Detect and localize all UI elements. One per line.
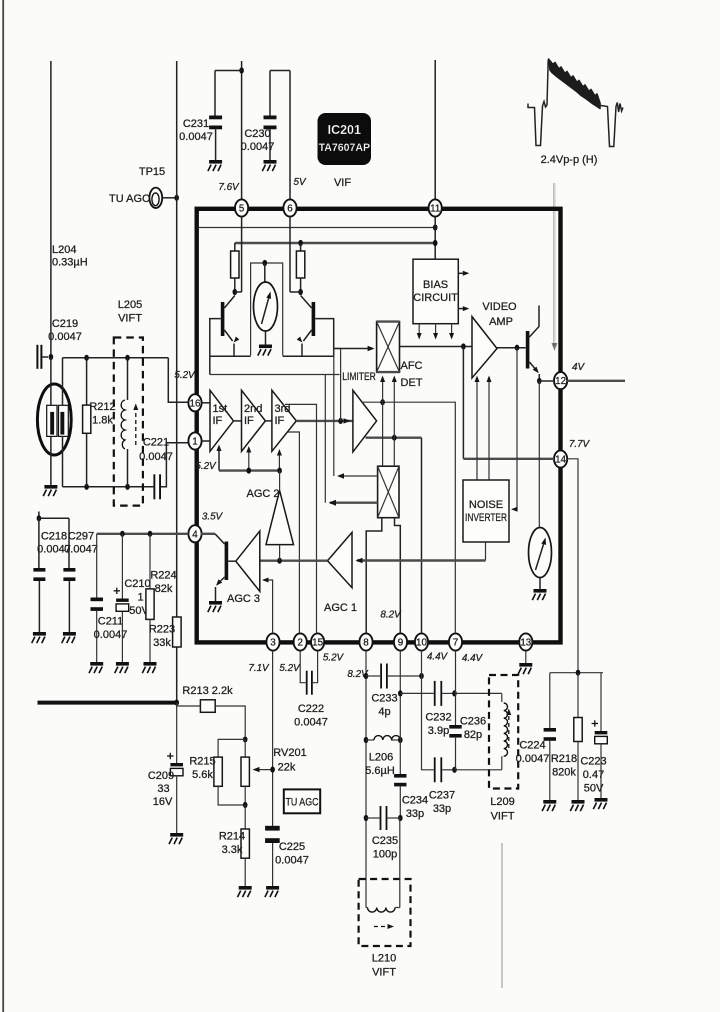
transformer L205 VIFT — [114, 338, 143, 506]
svg-text:C297: C297 — [68, 531, 94, 543]
wire 2nd-3rd IF — [265, 420, 272, 422]
svg-text:IF: IF — [275, 415, 285, 427]
pin 2 (IF bypass) — [294, 633, 307, 650]
svg-text:0.0047: 0.0047 — [139, 451, 173, 463]
svg-text:15: 15 — [312, 638, 323, 649]
node C219/L204 junction — [49, 354, 54, 360]
capacitor C209 33uF 16V electrolytic — [167, 703, 183, 833]
pin 9 (det tank) — [394, 633, 407, 650]
svg-text:C209: C209 — [148, 770, 174, 782]
svg-text:33p: 33p — [406, 808, 424, 820]
wire pin10 column — [422, 651, 434, 770]
svg-text:0.0047: 0.0047 — [516, 753, 550, 765]
wire pin9 column — [399, 651, 401, 774]
wire emitter to pin 12 — [539, 380, 554, 382]
wire noise inverter input — [513, 348, 518, 510]
capacitor C235 100p — [366, 806, 400, 830]
svg-text:5.6k: 5.6k — [192, 769, 213, 781]
svg-text:IF: IF — [244, 415, 254, 427]
svg-text:C233: C233 — [371, 693, 397, 705]
wire AFC det inputs from limiter — [380, 376, 397, 438]
svg-text:16V: 16V — [153, 796, 173, 808]
svg-text:82p: 82p — [464, 729, 482, 741]
svg-text:8.2V: 8.2V — [380, 610, 402, 621]
svg-text:AMP: AMP — [489, 316, 513, 328]
svg-text:820k: 820k — [552, 767, 576, 779]
wire AGC bus thick — [38, 701, 177, 703]
op-amp video amp — [472, 317, 497, 378]
wire tank to pin 16 — [168, 358, 188, 403]
svg-text:3.9p: 3.9p — [428, 725, 449, 737]
pin 3 (AGC adj) — [266, 633, 279, 650]
op-amp 2nd IF — [242, 390, 266, 451]
svg-text:0.0047: 0.0047 — [294, 717, 328, 729]
svg-text:DET: DET — [401, 377, 423, 389]
wire internal rail upper — [199, 227, 435, 229]
pin 8 (det tank) — [359, 633, 372, 650]
svg-text:1st: 1st — [213, 403, 228, 415]
svg-text:INVERTER: INVERTER — [465, 512, 507, 524]
svg-text:VIDEO: VIDEO — [482, 301, 517, 313]
wire AGC filter node — [39, 517, 69, 519]
capacitor C236 82p — [449, 725, 461, 738]
waveform video 2.4Vp-p (H) — [528, 59, 623, 147]
wire pin13 to ground — [525, 651, 527, 663]
svg-text:3.5V: 3.5V — [202, 512, 224, 523]
ground — [238, 886, 252, 897]
resistor R214 3.3k — [241, 805, 249, 886]
wire AGC2 base stub — [279, 545, 281, 561]
capacitor C219 — [36, 345, 48, 369]
resistor R224 82k — [146, 534, 154, 662]
wire video det lower output arrow — [330, 502, 378, 504]
svg-text:7: 7 — [453, 638, 458, 649]
wire pin5 top node — [241, 61, 243, 199]
svg-text:22k: 22k — [278, 762, 296, 774]
wire 4V output line — [567, 380, 625, 382]
capacitor C230 — [264, 71, 291, 161]
op-amp limiter — [353, 390, 377, 452]
resistor R218 820k — [574, 673, 582, 800]
ground — [258, 345, 272, 356]
wire 3rd IF output to limiter — [296, 420, 353, 422]
capacitor C218 0.0047 — [33, 518, 45, 632]
pin 13 (GND) — [519, 633, 532, 650]
block NOISE INVERTER — [463, 480, 509, 542]
wire limiter lower output — [366, 437, 422, 439]
svg-text:4V: 4V — [572, 362, 585, 373]
wire video det to pin 8 — [366, 518, 382, 634]
svg-text:R214: R214 — [219, 831, 245, 843]
svg-text:1: 1 — [137, 592, 143, 604]
wire 3rd IF tap to pin 2 — [288, 432, 300, 633]
ground — [115, 662, 129, 673]
wire video det upper output arrow — [340, 475, 378, 477]
svg-text:33k: 33k — [153, 637, 171, 649]
svg-text:4p: 4p — [378, 706, 390, 718]
wire video det to pin 9 — [395, 518, 401, 634]
IC201 TA7607AP label box — [318, 113, 372, 165]
ground — [62, 632, 76, 643]
svg-text:IC201: IC201 — [328, 123, 361, 137]
ground — [570, 800, 584, 811]
svg-text:100p: 100p — [373, 849, 397, 861]
capacitor C224 0.0047 — [544, 673, 556, 800]
svg-text:R224: R224 — [150, 570, 176, 582]
svg-text:5.2V: 5.2V — [195, 461, 217, 472]
capacitor C221 0.0047 — [153, 443, 188, 500]
pin 5 (7.6V) — [235, 199, 248, 216]
svg-text:0.33µH: 0.33µH — [52, 257, 88, 269]
wire video amp output to transistor — [497, 347, 526, 349]
wire AGC3 input from pin 3 — [264, 580, 273, 633]
svg-text:11: 11 — [430, 204, 440, 215]
wire pin6 top — [289, 71, 291, 200]
ground — [208, 601, 222, 612]
svg-text:C219: C219 — [52, 318, 78, 330]
svg-text:TU AGC: TU AGC — [286, 797, 319, 809]
pin 6 (5V) — [283, 199, 296, 216]
svg-text:9: 9 — [398, 638, 403, 649]
svg-text:33p: 33p — [433, 803, 451, 815]
svg-text:7.7V: 7.7V — [569, 439, 591, 450]
capacitor C222 0.0047 — [300, 651, 317, 695]
wire pin4 AGC filter line — [97, 533, 189, 535]
capacitor C234 33p — [394, 774, 406, 818]
wire limiter to AFC det — [334, 349, 341, 421]
svg-text:CIRCUIT: CIRCUIT — [413, 292, 458, 304]
svg-text:2nd: 2nd — [244, 403, 262, 415]
svg-text:RV201: RV201 — [273, 747, 306, 759]
svg-text:0.0047: 0.0047 — [241, 141, 275, 153]
meter internal tuning-meter — [251, 260, 283, 356]
ground — [208, 160, 222, 171]
svg-text:0.0047: 0.0047 — [48, 331, 82, 343]
svg-text:AFC: AFC — [401, 360, 423, 372]
transformer L209 VIFT — [489, 675, 518, 789]
svg-text:5.6µH: 5.6µH — [365, 765, 395, 777]
ground — [142, 662, 156, 673]
wire pin7 column — [455, 651, 457, 725]
svg-text:C232: C232 — [425, 712, 451, 724]
svg-text:L205: L205 — [118, 299, 142, 311]
wire pin16 to 1st IF — [202, 402, 210, 404]
construction line below L209 — [501, 843, 503, 988]
svg-text:5: 5 — [239, 204, 245, 215]
svg-text:10: 10 — [416, 638, 427, 649]
wire TP15 to AGC rail — [162, 197, 176, 199]
svg-text:C235: C235 — [372, 835, 398, 847]
wire tank top line — [63, 357, 169, 359]
wire pin11 top vertical — [434, 60, 436, 199]
svg-text:2: 2 — [297, 638, 302, 649]
mixer AFC DET — [377, 322, 400, 373]
svg-text:14: 14 — [555, 455, 566, 466]
wire pin6 to diff pair — [289, 217, 291, 292]
wire AGC1 output line — [260, 560, 328, 562]
svg-text:AGC 2: AGC 2 — [246, 488, 279, 500]
resistor R215 5.6k — [214, 739, 245, 805]
capacitor C233 4p — [366, 664, 422, 689]
potentiometer RV201 22k — [241, 739, 273, 805]
pin 1 (IF in) — [188, 432, 201, 449]
wire video det reference vertical — [324, 375, 326, 503]
svg-text:L206: L206 — [369, 752, 393, 764]
wire SAW left lead to ground — [50, 357, 52, 405]
svg-text:C211: C211 — [98, 616, 123, 628]
svg-text:3.3k: 3.3k — [222, 844, 243, 856]
resistor internal left load — [234, 243, 236, 251]
svg-text:4.4V: 4.4V — [427, 652, 449, 663]
svg-text:TA7607AP: TA7607AP — [319, 142, 370, 154]
pin 7 (AFC tank) — [449, 633, 462, 650]
op-amp AGC3 — [236, 531, 260, 591]
wire 7.7V node horizontal — [550, 672, 603, 674]
inductor L206 5.6uH — [366, 736, 400, 740]
pin 4 (AGC filter) — [188, 525, 201, 542]
wire bias outputs down — [418, 324, 420, 336]
svg-text:50V: 50V — [584, 783, 604, 795]
svg-text:5.2V: 5.2V — [279, 663, 301, 674]
wire AFC det output — [400, 346, 473, 348]
svg-text:33: 33 — [157, 783, 169, 795]
pin 11 (Vcc) — [429, 199, 442, 216]
svg-text:C234: C234 — [402, 795, 428, 807]
wire tank bottom line — [63, 486, 154, 488]
svg-text:L204: L204 — [52, 244, 76, 256]
svg-text:0.0047: 0.0047 — [64, 544, 98, 556]
transistor video output emitter-follower — [526, 306, 540, 382]
pointer arrow from waveform to pin 12 — [553, 183, 555, 346]
pin 10 (AFC tank) — [415, 633, 428, 650]
pin 14 (video out 7.7V) — [554, 450, 567, 467]
wire AGC feedback 5.2V line — [217, 445, 282, 474]
svg-text:VIF: VIF — [334, 177, 351, 189]
ground — [169, 833, 183, 844]
ground — [89, 662, 103, 673]
svg-text:C218: C218 — [41, 531, 67, 543]
op-amp 1st IF — [210, 390, 234, 451]
SAW filter input — [37, 384, 71, 455]
ground — [262, 160, 276, 171]
ground — [265, 886, 279, 897]
op-amp AGC2 — [266, 490, 294, 544]
capacitor C223 0.47 50V electrolytic — [592, 673, 608, 798]
pin 16 (IF in) — [188, 394, 201, 411]
wire pin11 to bias circuit — [434, 217, 436, 260]
ground — [43, 485, 57, 496]
wire TU AGC vertical rail — [176, 61, 178, 617]
svg-text:0.0047: 0.0047 — [275, 855, 309, 867]
svg-text:L210: L210 — [372, 953, 396, 965]
svg-text:C231: C231 — [183, 118, 209, 130]
wire 3rd IF tap to pin 15 — [285, 404, 317, 633]
capacitor C211 0.0047 — [91, 534, 104, 662]
svg-text:LIMITER: LIMITER — [342, 371, 376, 383]
svg-text:C224: C224 — [519, 740, 545, 752]
svg-text:C237: C237 — [429, 790, 455, 802]
ground — [518, 663, 532, 674]
svg-text:7.6V: 7.6V — [218, 182, 240, 193]
capacitor C237 33p — [434, 757, 455, 782]
wire AGC3 apex to transistor — [228, 560, 236, 562]
svg-text:4.4V: 4.4V — [462, 653, 484, 664]
wire AFC tank to L209 — [455, 692, 502, 694]
svg-text:8: 8 — [363, 638, 369, 649]
wire pin5 to diff pair — [241, 217, 243, 292]
wire pin1 to 1st IF — [202, 440, 210, 442]
svg-text:7.1V: 7.1V — [248, 663, 270, 674]
IC201 block outline — [197, 209, 561, 643]
svg-text:R212: R212 — [89, 401, 115, 413]
ground — [593, 798, 607, 809]
svg-text:4: 4 — [192, 529, 198, 540]
svg-text:TP15: TP15 — [139, 166, 165, 178]
wire 1st-2nd IF — [234, 420, 242, 422]
resistor R213 2.2k — [177, 700, 246, 736]
svg-text:R223: R223 — [149, 624, 175, 636]
block BIAS CIRCUIT — [413, 259, 458, 324]
ground — [542, 800, 556, 811]
svg-text:3: 3 — [270, 638, 276, 649]
svg-text:C230: C230 — [244, 128, 270, 140]
meter internal output meter — [529, 381, 552, 589]
wire limiter upper output — [362, 402, 455, 633]
wire video amp feedback inputs — [475, 376, 492, 481]
ground — [532, 589, 546, 600]
svg-text:AGC 1: AGC 1 — [324, 602, 357, 614]
page edge line — [2, 0, 4, 1012]
wire video det carrier inputs — [382, 402, 384, 466]
testpoint TP15 TU AGC — [149, 188, 162, 208]
capacitor C232 3.9p — [400, 681, 454, 706]
wire SAW right lead — [62, 358, 64, 406]
svg-text:1.8k: 1.8k — [92, 415, 113, 427]
wire video amp node to pin 14 — [462, 347, 464, 459]
svg-text:C225: C225 — [279, 841, 305, 853]
svg-text:TU AGC: TU AGC — [109, 193, 150, 205]
svg-text:R218: R218 — [551, 753, 577, 765]
transistor internal Q-left — [210, 296, 251, 375]
ground — [32, 632, 46, 643]
svg-text:BIAS: BIAS — [423, 279, 448, 291]
svg-text:5.2V: 5.2V — [174, 370, 196, 381]
svg-text:13: 13 — [520, 638, 531, 649]
label TU AGC box — [284, 789, 320, 813]
svg-text:2.4Vp-p (H): 2.4Vp-p (H) — [541, 154, 598, 166]
capacitor C231 — [209, 71, 222, 161]
node RV201 top — [243, 736, 248, 742]
wire AGC2 input from 5.2V line — [279, 471, 281, 491]
op-amp 3rd IF — [272, 390, 296, 451]
svg-text:NOISE: NOISE — [469, 499, 503, 511]
svg-text:AGC 3: AGC 3 — [227, 593, 260, 605]
transformer L210 VIFT — [359, 818, 411, 946]
resistor R223 33k — [173, 617, 182, 647]
resistor internal right load — [300, 243, 302, 251]
svg-text:L209: L209 — [490, 796, 514, 808]
svg-text:5.2V: 5.2V — [323, 653, 345, 664]
svg-text:1: 1 — [192, 437, 197, 448]
wire pin14 to external network — [567, 459, 578, 673]
wire internal supply rail — [235, 242, 437, 244]
wire bias outputs right — [458, 272, 466, 274]
svg-text:VIFT: VIFT — [491, 811, 515, 823]
svg-text:VIFT: VIFT — [118, 313, 142, 325]
svg-text:5V: 5V — [293, 177, 306, 188]
transistor internal Q-right — [283, 296, 334, 357]
op-amp AGC1 — [328, 532, 353, 587]
capacitor C297 0.0047 — [63, 518, 75, 632]
wire noise inverter output to AGC line — [485, 542, 487, 561]
svg-text:IF: IF — [213, 415, 223, 427]
wire pin3 column — [272, 651, 274, 828]
svg-text:82k: 82k — [155, 583, 173, 595]
svg-text:C223: C223 — [580, 756, 606, 768]
svg-text:C222: C222 — [298, 703, 324, 715]
pin 12 (video out) — [554, 372, 567, 389]
mixer video detector — [378, 466, 399, 518]
svg-text:C221: C221 — [143, 437, 169, 449]
wire L204 net vertical — [50, 61, 52, 357]
svg-text:0.0047: 0.0047 — [179, 131, 213, 143]
svg-text:6: 6 — [287, 204, 293, 215]
capacitor C225 0.0047 — [265, 826, 280, 886]
svg-text:12: 12 — [555, 376, 566, 387]
resistor R212 1.8k — [83, 358, 91, 487]
svg-text:0.47: 0.47 — [583, 769, 604, 781]
svg-text:C236: C236 — [460, 716, 486, 728]
pin 15 (IF bypass) — [311, 633, 324, 650]
transistor AGC3 output — [201, 534, 229, 601]
svg-text:R213 2.2k: R213 2.2k — [182, 685, 233, 697]
svg-text:16: 16 — [190, 398, 201, 409]
wire pin8 column — [365, 651, 367, 908]
wire diff pair bottom line — [210, 374, 340, 376]
wire AFC reference vertical — [333, 349, 335, 477]
svg-text:R215: R215 — [189, 756, 215, 768]
svg-text:VIFT: VIFT — [372, 967, 396, 979]
capacitor C210 1uF 50V electrolytic — [114, 534, 129, 662]
